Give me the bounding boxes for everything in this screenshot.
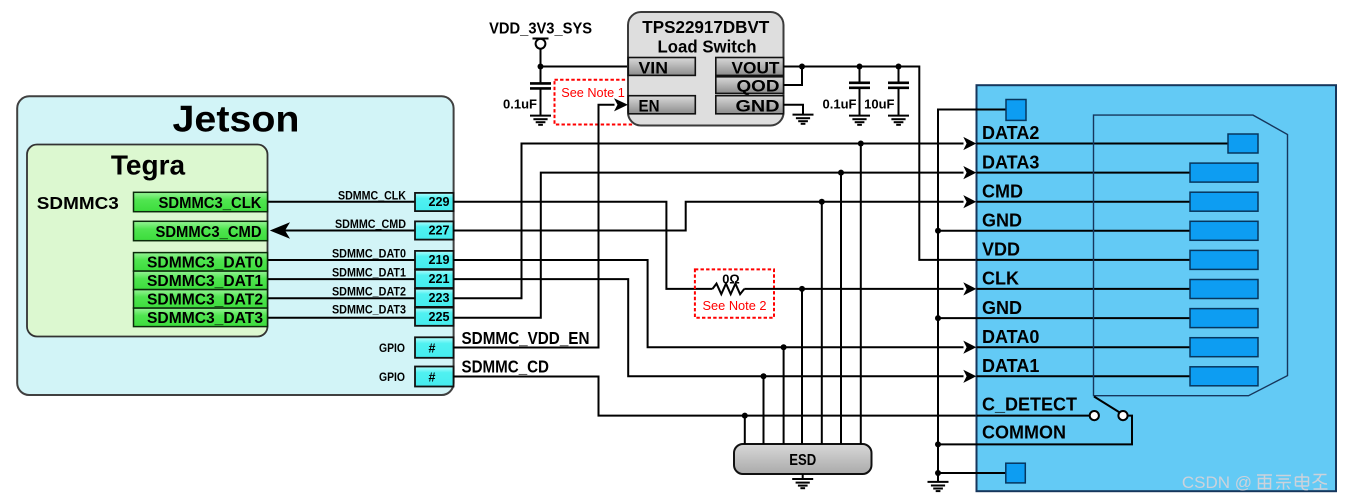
svg-text:Tegra: Tegra [111, 150, 186, 181]
junction C2 [857, 64, 863, 70]
svg-text:223: 223 [429, 291, 450, 305]
arrow into SDMMC3_CMD [270, 222, 290, 238]
svg-text:GPIO: GPIO [379, 341, 405, 355]
svg-text:SDMMC_DAT1: SDMMC_DAT1 [332, 266, 406, 280]
switch lever C_DETECT [1094, 397, 1121, 414]
pad GND2 [1190, 309, 1258, 328]
svg-text:GPIO: GPIO [379, 370, 405, 384]
U1 pin GND [716, 96, 784, 116]
svg-text:EN: EN [639, 97, 660, 116]
junction GND/COMMON [935, 441, 941, 447]
top pad (write protect) [1006, 100, 1026, 121]
capacitor C2 0.1uF output [849, 67, 870, 116]
SD internal wire CMD to pad [977, 201, 1191, 203]
bottom pad [1006, 463, 1026, 483]
svg-text:QOD: QOD [737, 77, 780, 96]
note box See Note 1 [555, 80, 633, 125]
ground (C2) [849, 116, 870, 125]
terminal bar [533, 38, 549, 40]
wire GND row2 [938, 317, 1190, 319]
svg-text:VDD_3V3_SYS: VDD_3V3_SYS [489, 21, 592, 38]
svg-text:TPS22917DBVT: TPS22917DBVT [642, 17, 769, 37]
svg-text:229: 229 [429, 195, 450, 209]
svg-text:GND: GND [736, 97, 780, 116]
svg-text:SDMMC3: SDMMC3 [37, 193, 119, 213]
svg-text:See Note 2: See Note 2 [703, 298, 767, 313]
ESD stem CLK [801, 289, 803, 444]
capacitor C3 10uF [888, 67, 909, 116]
wire SDMMC3_DAT0 to pin 219 [268, 259, 416, 261]
pad DATA1 [1190, 367, 1258, 386]
svg-text:VDD: VDD [982, 240, 1020, 260]
svg-text:SDMMC_CD: SDMMC_CD [462, 357, 550, 377]
svg-text:See Note 1: See Note 1 [561, 85, 625, 100]
wire CLK to SD [744, 288, 963, 290]
U1 pin VOUT [716, 58, 784, 78]
capacitor C1 0.1uF input [530, 83, 551, 115]
svg-text:SDMMC_DAT0: SDMMC_DAT0 [332, 247, 406, 261]
junction GND row2 [935, 315, 941, 321]
arrow DATA2 [963, 137, 976, 150]
wire SDMMC3_DAT3 to pin 225 [268, 317, 416, 319]
junction DATA1/ESD [761, 373, 767, 379]
svg-text:C_DETECT: C_DETECT [982, 394, 1077, 414]
svg-text:10uF: 10uF [864, 96, 894, 111]
wire SDMMC_CLK net [454, 202, 713, 289]
pin 227 [415, 221, 454, 239]
wire VOUT net [784, 67, 1191, 260]
svg-text:GND: GND [982, 298, 1022, 318]
svg-text:Jetson: Jetson [173, 99, 300, 140]
pad DATA0 [1190, 338, 1258, 357]
svg-text:0.1uF: 0.1uF [823, 96, 857, 111]
pad DATA3 [1190, 163, 1258, 182]
load switch U1 TPS22917DBVT body [628, 12, 784, 126]
junction DATA2/ESD [858, 141, 864, 147]
card outline [1094, 115, 1288, 396]
Tegra box [27, 145, 268, 337]
wire SDMMC_DAT3 net [454, 173, 964, 318]
port SDMMC3_DAT0 [134, 253, 268, 272]
svg-text:SDMMC_VDD_EN: SDMMC_VDD_EN [462, 328, 590, 348]
arrow CMD [963, 195, 976, 208]
svg-text:SDMMC3_CMD: SDMMC3_CMD [156, 224, 262, 241]
arrow into EN [614, 98, 628, 111]
junction C_DETECT/ESD [742, 413, 748, 419]
svg-text:227: 227 [429, 224, 450, 238]
note box See Note 2 [695, 269, 774, 317]
ground (GND net) [928, 482, 949, 491]
ESD stem DATA2 [860, 144, 862, 445]
wire QOD to VOUT [784, 67, 803, 86]
pad VDD [1190, 250, 1258, 269]
pin GPIO # (SDMMC_VDD_EN) [415, 337, 454, 358]
svg-text:DATA3: DATA3 [982, 152, 1039, 172]
ground (ESD) [792, 479, 813, 488]
svg-text:CMD: CMD [982, 181, 1023, 201]
svg-text:GND: GND [982, 211, 1022, 231]
port SDMMC3_CLK [134, 192, 268, 212]
ESD stem DATA0 [783, 347, 785, 444]
svg-text:CLK: CLK [982, 269, 1019, 289]
wire SDMMC_DAT0 net [454, 260, 964, 347]
svg-text:SDMMC_DAT2: SDMMC_DAT2 [332, 284, 406, 298]
pin 225 [415, 308, 454, 326]
svg-text:SDMMC3_DAT2: SDMMC3_DAT2 [147, 292, 263, 309]
pin 229 [415, 193, 454, 211]
ESD stem DATA3 [840, 173, 842, 444]
wire GND row1 [938, 230, 1190, 232]
arrow DATA1 [963, 370, 976, 383]
ESD ground stem [802, 474, 804, 479]
ground (C1) [530, 116, 551, 125]
svg-text:ESD: ESD [789, 452, 816, 469]
svg-text:VIN: VIN [639, 58, 669, 77]
port SDMMC3_CMD [134, 221, 268, 241]
wire SDMMC3_DAT2 to pin 223 [268, 297, 416, 299]
svg-text:SDMMC_CLK: SDMMC_CLK [338, 188, 406, 202]
junction VDD_3V3_SYS [538, 64, 544, 70]
wire SDMMC_CMD net [454, 202, 964, 231]
pin GPIO # (SDMMC_CD) [415, 367, 454, 387]
port SDMMC3_DAT2 [134, 290, 268, 309]
wire bottom pad to GND [938, 472, 1006, 474]
wire SDMMC_CD / C_DETECT net [454, 377, 1090, 416]
wire COMMON [938, 416, 1132, 445]
svg-text:225: 225 [429, 310, 450, 324]
ESD stem DATA1 [763, 376, 765, 444]
svg-text:0.1uF: 0.1uF [503, 96, 537, 111]
port SDMMC3_DAT1 [134, 271, 268, 290]
pad CMD [1190, 192, 1258, 211]
pad CLK [1190, 280, 1258, 299]
svg-text:DATA0: DATA0 [982, 327, 1039, 347]
svg-text:SDMMC3_DAT1: SDMMC3_DAT1 [147, 273, 263, 290]
junction GND row1 [935, 228, 941, 234]
svg-text:221: 221 [429, 272, 450, 286]
junction DATA0/ESD [781, 344, 787, 350]
svg-text:COMMON: COMMON [982, 423, 1066, 443]
svg-text:SDMMC3_DAT3: SDMMC3_DAT3 [147, 310, 263, 327]
wire SDMMC3_DAT1 to pin 221 [268, 278, 416, 280]
SD internal wire VDD to pad [977, 259, 1191, 261]
svg-text:SDMMC3_DAT0: SDMMC3_DAT0 [147, 255, 263, 272]
ground (C3) [888, 116, 909, 125]
SD internal wire DATA0 to pad [977, 346, 1191, 348]
SD internal wire C_DETECT inside [977, 415, 1090, 417]
SD internal wire DATA2 to pad [977, 143, 1229, 145]
wire VDD_3V3_SYS to VIN [541, 66, 629, 68]
pin 223 [415, 289, 454, 307]
wire U1 GND [784, 105, 804, 114]
SD internal wire DATA3 to pad [977, 172, 1191, 174]
ESD stem CMD [821, 202, 823, 444]
terminal circle VDD_3V3_SYS [536, 39, 546, 49]
svg-text:#: # [429, 341, 436, 355]
U1 pin VIN [628, 58, 695, 78]
svg-text:SDMMC_DAT3: SDMMC_DAT3 [332, 302, 406, 316]
wire SDMMC_DAT1 net [454, 279, 964, 376]
wire EN net vertical [454, 105, 615, 348]
U1 pin EN [628, 96, 695, 116]
pad GND1 [1190, 221, 1258, 240]
SD internal wire CLK to pad [977, 288, 1191, 290]
ESD stem C_DETECT [744, 416, 746, 444]
svg-text:0Ω: 0Ω [722, 272, 740, 286]
pin 221 [415, 270, 454, 288]
arrow CLK [963, 282, 976, 295]
svg-text:DATA2: DATA2 [982, 123, 1039, 143]
wire SDMMC_DAT2 net [454, 144, 964, 299]
ESD suppressor U2 [734, 444, 872, 474]
junction C3 [896, 64, 902, 70]
pin 219 [415, 251, 454, 269]
arrow DATA3 [963, 166, 976, 179]
SD card connector body [977, 85, 1337, 491]
ground net vertical GND [938, 110, 1006, 482]
resistor R1 0 ohm [713, 284, 745, 295]
svg-text:CSDN @: CSDN @ [1182, 473, 1252, 492]
switch contact circle 2 [1118, 411, 1127, 420]
switch contact circle 1 [1090, 411, 1099, 420]
junction QOD/VOUT [799, 64, 805, 70]
arrow DATA0 [963, 341, 976, 354]
wire VDD_3V3_SYS down [540, 49, 542, 83]
junction CMD/ESD [819, 199, 825, 205]
wire SDMMC3_CMD to pin 227 [285, 230, 415, 232]
svg-text:219: 219 [429, 253, 450, 267]
junction DATA3/ESD [838, 170, 844, 176]
U1 pin QOD [716, 77, 784, 96]
pad DATA2 [1228, 134, 1258, 153]
port SDMMC3_DAT3 [134, 308, 268, 327]
junction CLK/ESD [799, 286, 805, 292]
wire SDMMC3_CLK to pin 229 [268, 201, 416, 203]
svg-text:VOUT: VOUT [732, 58, 781, 77]
watermark CJK glyphs [1257, 474, 1328, 490]
SD internal wire DATA1 to pad [977, 375, 1191, 377]
svg-text:SDMMC_CMD: SDMMC_CMD [335, 217, 406, 231]
junction GND bottom pad [935, 470, 941, 476]
svg-text:Load Switch: Load Switch [658, 37, 757, 57]
ground (U1 GND) [793, 115, 814, 124]
svg-text:#: # [429, 370, 436, 384]
svg-text:SDMMC3_CLK: SDMMC3_CLK [159, 195, 262, 212]
Jetson module box [17, 96, 453, 395]
svg-text:DATA1: DATA1 [982, 356, 1039, 376]
